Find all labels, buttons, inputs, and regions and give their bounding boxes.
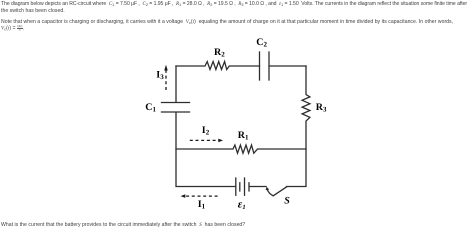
svg-text:C1: C1 — [145, 102, 156, 114]
svg-text:I2: I2 — [202, 125, 210, 137]
svg-text:I1: I1 — [198, 199, 206, 211]
svg-text:R3: R3 — [316, 102, 327, 114]
svg-text:R2: R2 — [214, 47, 225, 59]
svg-text:ε1: ε1 — [238, 199, 246, 211]
svg-text:S: S — [284, 196, 290, 207]
svg-text:R1: R1 — [238, 130, 249, 142]
svg-text:C2: C2 — [256, 37, 267, 49]
svg-text:I3: I3 — [156, 70, 164, 82]
